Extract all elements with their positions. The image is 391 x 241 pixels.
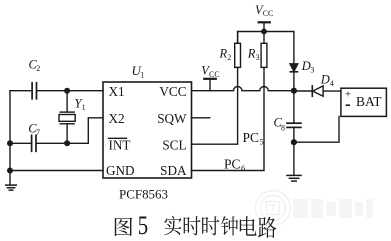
capacitor C8: [287, 91, 301, 143]
wire X2 net jog to pin X2: [36, 118, 103, 144]
label C2: [29, 58, 41, 74]
node rail-GND junction: [7, 168, 13, 174]
label D3: [301, 59, 315, 75]
label VCC near chip: [201, 63, 219, 78]
crystal Y1: [59, 91, 75, 144]
label PC5: [243, 130, 264, 147]
op-amp U1 chip body PCF8563: [103, 82, 192, 178]
svg-text:X2: X2: [109, 111, 125, 126]
pin INT overline: [109, 137, 127, 139]
svg-text:GND: GND: [106, 163, 135, 178]
caption char 时a: [184, 216, 201, 235]
svg-text:+: +: [345, 89, 351, 101]
label Y1: [75, 96, 86, 112]
wire C8 to ground: [293, 142, 295, 175]
capacitor C2: [32, 83, 36, 99]
label PC6: [224, 156, 245, 173]
watermark circle: [256, 191, 291, 226]
caption char 时b: [202, 216, 219, 235]
svg-text:CC: CC: [209, 70, 220, 79]
svg-text:3: 3: [256, 53, 260, 62]
svg-text:PC: PC: [243, 130, 260, 145]
svg-text:R: R: [219, 47, 228, 61]
svg-text:VCC: VCC: [159, 84, 186, 99]
node C8-battery junction: [291, 139, 297, 145]
power VCC symbol near chip: [204, 79, 216, 91]
svg-text:1: 1: [82, 103, 86, 112]
capacitor C7: [32, 135, 36, 151]
label R2: [219, 47, 232, 63]
node crystal-C7 junction: [64, 140, 70, 146]
svg-text:5: 5: [138, 212, 148, 241]
svg-text:3: 3: [310, 66, 314, 75]
wire SCL net to pull-up: [192, 67, 238, 144]
wire X1 net left segment: [10, 90, 32, 92]
diode D3: [290, 64, 298, 91]
svg-text:X1: X1: [109, 84, 125, 99]
node top rail junction: [261, 29, 267, 35]
label battery minus: [346, 104, 350, 106]
wire X2 net left segment: [10, 142, 31, 144]
svg-text:BAT: BAT: [356, 94, 382, 109]
ground right: [287, 175, 301, 181]
watermark text: [293, 199, 373, 218]
node VCC-D3-D4-C8 junction: [291, 88, 297, 94]
svg-text:2: 2: [36, 64, 40, 73]
diode D4: [294, 86, 341, 96]
node rail-C7 junction: [7, 140, 13, 146]
power VCC symbol top: [259, 22, 270, 31]
wire X1 net right segment: [37, 90, 103, 92]
label VCC top: [255, 3, 273, 18]
wire top VCC rail: [238, 32, 294, 64]
svg-text:CC: CC: [263, 9, 274, 18]
caption char 实: [164, 216, 181, 236]
wire VCC net from pin VCC with hops: [192, 86, 294, 90]
wire GND net: [10, 170, 103, 172]
wire battery minus return: [294, 116, 339, 142]
caption char 路: [258, 217, 276, 238]
caption char 电: [240, 216, 257, 236]
svg-text:INT: INT: [109, 137, 131, 152]
label R3: [247, 47, 260, 63]
wire SQW stub: [192, 117, 210, 119]
svg-text:SQW: SQW: [157, 111, 187, 126]
label C8: [274, 116, 286, 133]
resistor R2: [235, 32, 241, 68]
wire SDA net to pull-up: [192, 67, 265, 170]
svg-text:8: 8: [281, 123, 285, 132]
label D4: [320, 73, 334, 89]
caption char 钟: [221, 216, 238, 235]
caption char 图: [115, 218, 133, 237]
svg-text:7: 7: [36, 128, 40, 137]
svg-text:6: 6: [241, 163, 245, 173]
svg-text:PC: PC: [224, 156, 241, 171]
label C7: [28, 122, 40, 138]
svg-text:SCL: SCL: [162, 137, 186, 152]
svg-text:R: R: [247, 47, 256, 61]
svg-text:5: 5: [260, 137, 264, 147]
svg-text:SDA: SDA: [160, 163, 187, 178]
wire left rail: [9, 91, 11, 185]
svg-text:1: 1: [140, 71, 144, 80]
resistor R3: [261, 32, 267, 68]
ground left: [6, 185, 17, 190]
label U1: [132, 63, 145, 80]
svg-text:D: D: [301, 59, 311, 73]
svg-text:D: D: [320, 73, 330, 87]
svg-text:2: 2: [227, 53, 231, 62]
svg-text:4: 4: [330, 79, 334, 88]
node X1 junction: [64, 88, 70, 94]
battery BAT box: [341, 88, 387, 116]
svg-text:PCF8563: PCF8563: [119, 186, 168, 201]
